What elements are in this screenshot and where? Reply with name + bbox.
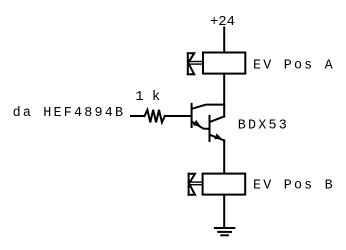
label EV Pos A: [253, 59, 335, 74]
label 1 k: [135, 89, 160, 105]
ground: [215, 228, 235, 235]
transistor Q2 darlington output (BDX53): [210, 116, 225, 141]
net +24 label: [210, 14, 235, 30]
wire input to resistor: [131, 115, 145, 117]
svg-text:BDX53: BDX53: [238, 119, 289, 134]
valve actuator symbol B: [189, 174, 203, 195]
wire emitter to valve B: [223, 140, 225, 173]
svg-text:+24: +24: [210, 14, 235, 30]
wire valve B to ground: [223, 195, 225, 228]
transistor Q1 darlington input (BDX53): [192, 104, 225, 129]
wire resistor to base: [165, 115, 191, 117]
svg-text:da HEF4894B: da HEF4894B: [13, 106, 126, 121]
label da HEF4894B: [13, 106, 126, 121]
svg-text:EV Pos A: EV Pos A: [253, 59, 335, 74]
wire valve A to collector node: [223, 74, 225, 117]
label EV Pos B: [253, 179, 335, 194]
solenoid valve coil EV Pos B: [203, 174, 246, 195]
valve actuator symbol A: [188, 53, 203, 74]
wire +24 to valve A: [223, 28, 225, 53]
svg-text:1 k: 1 k: [135, 89, 160, 105]
solenoid valve coil EV Pos A: [203, 53, 245, 74]
label BDX53: [238, 119, 289, 134]
svg-text:EV Pos B: EV Pos B: [253, 179, 335, 194]
resistor R 1k: [145, 110, 165, 123]
